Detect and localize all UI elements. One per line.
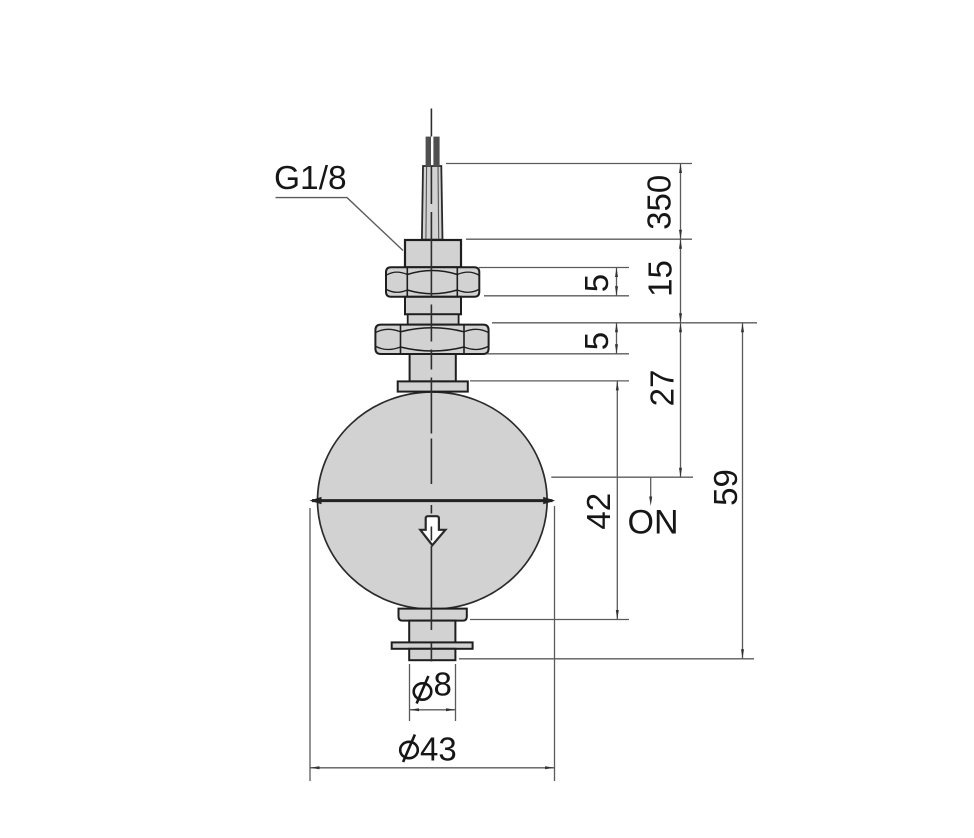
thread body G1/8 [405, 240, 461, 267]
hex nut lower [375, 325, 488, 354]
svg-text:5: 5 [578, 274, 615, 292]
bottom nut [409, 649, 455, 660]
lower stem [409, 621, 455, 643]
upper stem [410, 354, 456, 381]
dim text 15 [642, 260, 679, 297]
lower collar [399, 609, 467, 621]
svg-text:G1/8: G1/8 [274, 160, 347, 197]
phi43 ext line left [309, 508, 311, 781]
dim text phi43 [400, 730, 457, 767]
phi43 dim line [310, 766, 555, 769]
dim text 42 [580, 493, 617, 530]
dim text phi8 [414, 666, 452, 704]
ext line nut2 bottom [487, 353, 629, 355]
ext line nut2 top [492, 322, 757, 324]
dim line 5 lower [615, 323, 618, 354]
ext line top of thread body [466, 238, 692, 240]
spacer block [405, 297, 461, 315]
ON leader [649, 477, 652, 506]
float ball [318, 392, 548, 609]
centerline [430, 109, 432, 662]
washer [392, 642, 473, 648]
svg-text:42: 42 [580, 493, 617, 530]
phi43 ext line right [554, 506, 556, 781]
svg-text:15: 15 [642, 260, 679, 297]
svg-text:59: 59 [707, 469, 744, 506]
dim text 59 [707, 469, 744, 506]
ext line lower collar [470, 619, 629, 621]
ext line nut1 bottom [484, 295, 629, 297]
dim text 350 [641, 175, 678, 230]
svg-text:8: 8 [434, 666, 452, 703]
svg-text:43: 43 [420, 730, 457, 767]
phi8 ext line left [409, 664, 411, 721]
label ON [628, 504, 679, 542]
ON level line [551, 476, 693, 478]
cable sleeve [422, 166, 443, 240]
ext line assembly bottom [459, 658, 754, 660]
down arrow [420, 516, 445, 545]
ext line collar top [470, 380, 629, 382]
phi8 dim line [410, 708, 456, 711]
ext line nut1 top [479, 267, 629, 269]
dim text 5 upper [578, 274, 615, 292]
svg-text:27: 27 [644, 370, 681, 407]
ext line top of sleeve [446, 163, 692, 165]
spacer neck [408, 314, 459, 324]
upper collar [398, 381, 468, 391]
hex nut upper [386, 267, 479, 297]
dim text 27 [644, 370, 681, 407]
svg-text:5: 5 [578, 332, 615, 350]
phi8 ext line right [455, 664, 457, 721]
dim line 42 [616, 381, 619, 620]
waterline seam [310, 497, 556, 504]
G1/8 label [274, 160, 403, 251]
dim line 59 [741, 323, 744, 659]
svg-text:ON: ON [628, 504, 679, 542]
dim text 5 lower [578, 332, 615, 350]
wire leads [426, 137, 440, 167]
dim line 5 upper [615, 268, 618, 296]
dim line 350-15-27 [679, 164, 682, 478]
svg-text:350: 350 [641, 175, 678, 230]
